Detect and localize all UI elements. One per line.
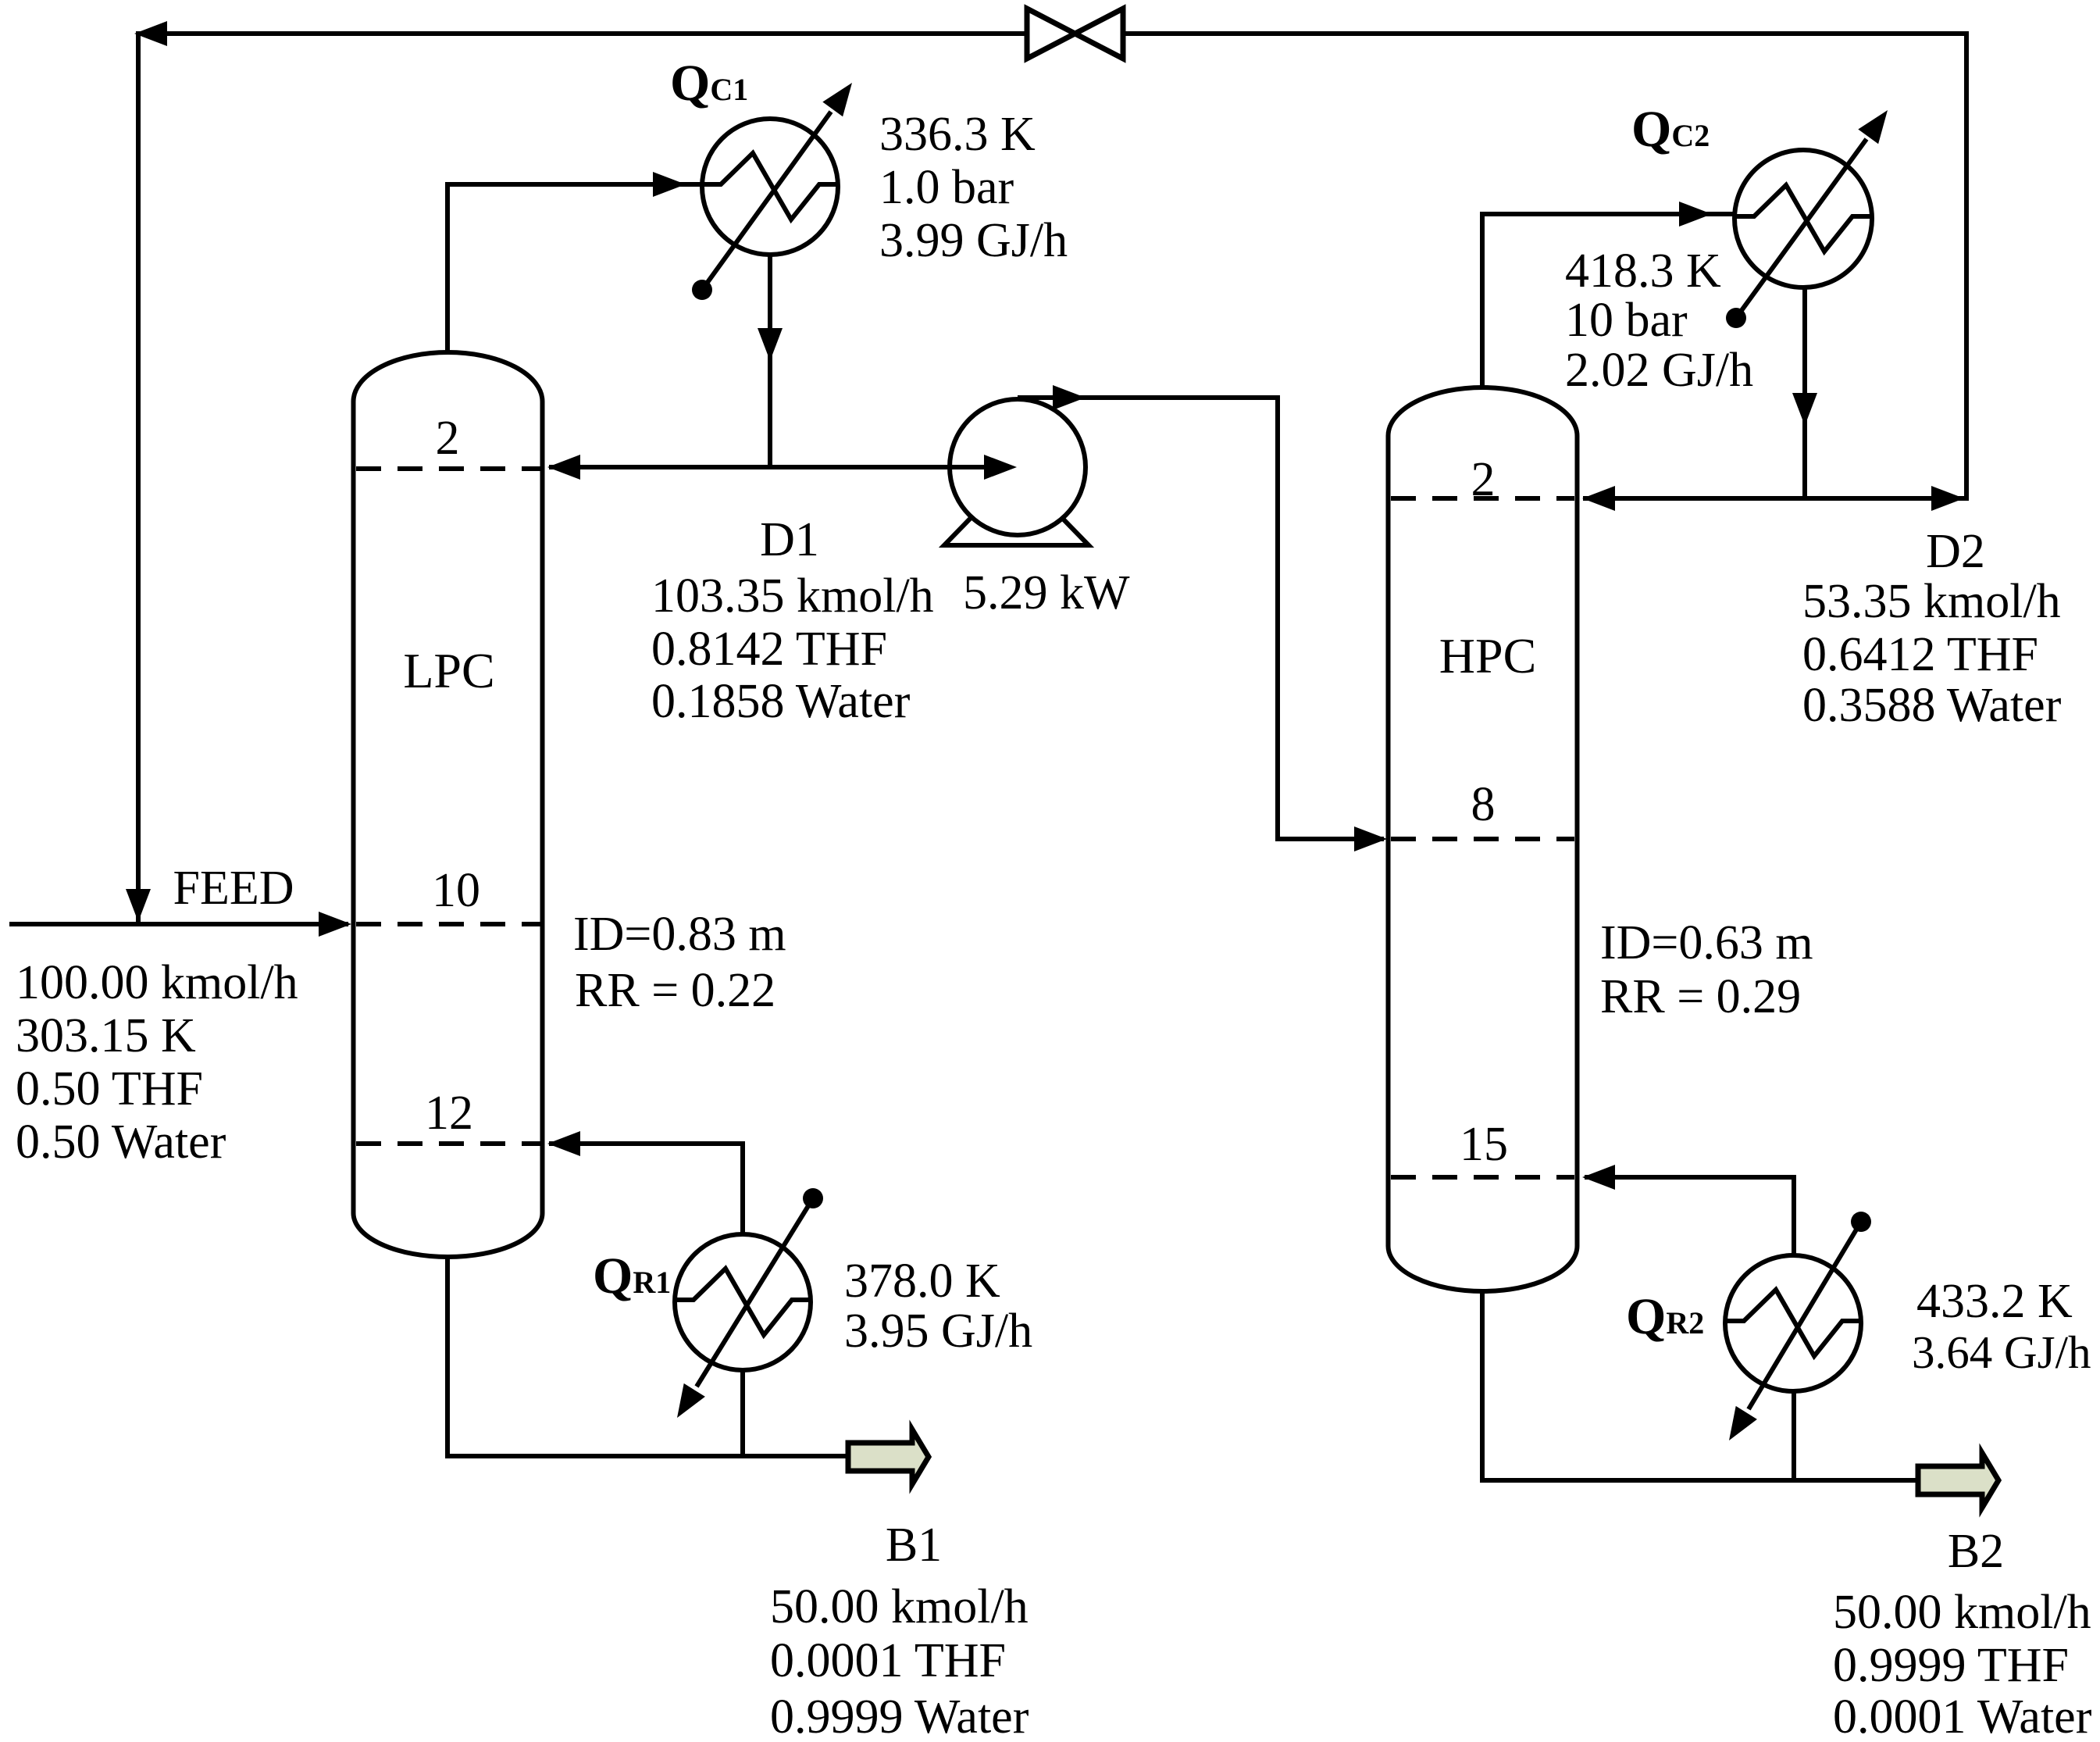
- arrowhead reflux into LPC: [547, 455, 580, 480]
- wire QC1 outlet down: [768, 255, 772, 469]
- arrowhead recycle down into feed: [126, 889, 151, 922]
- svg-text:50.00 kmol/h: 50.00 kmol/h: [770, 1580, 1029, 1633]
- reboiler QR1: [675, 1188, 823, 1418]
- svg-text:RR = 0.22: RR = 0.22: [575, 964, 775, 1017]
- svg-text:3.95 GJ/h: 3.95 GJ/h: [844, 1305, 1032, 1358]
- node HPC stage 2 dashed line: [1391, 496, 1574, 501]
- svg-text:0.0001 THF: 0.0001 THF: [770, 1634, 1006, 1687]
- svg-text:HPC: HPC: [1439, 628, 1537, 684]
- svg-text:0.9999 Water: 0.9999 Water: [770, 1690, 1029, 1742]
- svg-text:ID=0.63 m: ID=0.63 m: [1600, 916, 1813, 969]
- node HPC stage 8 dashed line: [1391, 837, 1574, 841]
- node LPC stage 10 dashed line: [356, 922, 540, 926]
- pump P1 stand: [944, 516, 1089, 545]
- wire recycle riser right (D2 to top): [1964, 34, 1969, 501]
- svg-text:0.0001 Water: 0.0001 Water: [1833, 1690, 2092, 1742]
- svg-text:0.3588 Water: 0.3588 Water: [1802, 679, 2062, 732]
- wire QR1 bottom connection: [740, 1367, 745, 1456]
- arrowhead D2 to recycle riser: [1931, 486, 1964, 511]
- arrowhead QC1 outlet down: [758, 328, 783, 361]
- svg-text:378.0 K: 378.0 K: [844, 1255, 1000, 1308]
- column LPC: [354, 352, 543, 1257]
- wire reflux/distillate line to pump: [549, 465, 1018, 469]
- svg-text:LPC: LPC: [403, 643, 494, 698]
- wire QR2 bottom connection: [1792, 1388, 1796, 1480]
- wire HPC overhead to QC2: [1480, 212, 1735, 216]
- arrowhead reboiler return into HPC: [1582, 1165, 1615, 1190]
- wire FEED line: [9, 922, 348, 926]
- arrowhead pump inlet: [984, 455, 1017, 480]
- wire recycle riser left (down to feed): [136, 31, 141, 924]
- condenser QC1: [692, 83, 852, 300]
- wire HPC reflux / D2 line: [1583, 496, 1966, 501]
- svg-text:FEED: FEED: [173, 862, 294, 915]
- svg-text:0.50 THF: 0.50 THF: [16, 1062, 203, 1116]
- svg-text:3.99 GJ/h: 3.99 GJ/h: [879, 214, 1068, 267]
- svg-text:ID=0.83 m: ID=0.83 m: [573, 908, 786, 961]
- svg-text:10: 10: [432, 864, 480, 917]
- svg-text:2: 2: [1471, 453, 1496, 506]
- svg-text:0.50 Water: 0.50 Water: [16, 1116, 226, 1169]
- arrowhead pump outlet right: [1053, 385, 1086, 410]
- svg-text:103.35 kmol/h: 103.35 kmol/h: [651, 569, 934, 623]
- arrowhead recycle left: [134, 21, 167, 46]
- svg-text:RR = 0.29: RR = 0.29: [1600, 970, 1801, 1023]
- svg-text:B1: B1: [886, 1519, 942, 1572]
- svg-text:336.3 K: 336.3 K: [879, 108, 1036, 161]
- svg-text:5.29 kW: 5.29 kW: [963, 566, 1130, 619]
- svg-text:418.3 K: 418.3 K: [1565, 245, 1721, 298]
- svg-text:303.15 K: 303.15 K: [16, 1009, 196, 1062]
- svg-text:12: 12: [425, 1087, 473, 1140]
- node B1 product arrow: [848, 1430, 929, 1484]
- wire pump inlet stub: [950, 465, 986, 469]
- svg-text:0.8142 THF: 0.8142 THF: [651, 623, 887, 676]
- condenser QC2: [1726, 110, 1888, 328]
- valve V1: [1027, 9, 1123, 59]
- svg-text:0.6412 THF: 0.6412 THF: [1802, 628, 2038, 681]
- arrowhead feed into LPC: [319, 912, 351, 937]
- svg-text:3.64 GJ/h: 3.64 GJ/h: [1912, 1326, 2091, 1378]
- wire LPC bottoms line: [447, 1257, 847, 1456]
- wire HPC bottoms line: [1482, 1291, 1917, 1480]
- svg-text:0.9999 THF: 0.9999 THF: [1833, 1639, 2069, 1692]
- arrowhead reboiler return into LPC: [547, 1131, 580, 1156]
- svg-text:B2: B2: [1948, 1525, 2004, 1578]
- wire LPC overhead riser: [445, 184, 450, 352]
- wire LPC overhead to QC1: [445, 182, 702, 187]
- arrowhead into QC2: [1679, 202, 1712, 227]
- svg-text:53.35 kmol/h: 53.35 kmol/h: [1802, 575, 2061, 628]
- node HPC stage 15 dashed line: [1391, 1175, 1574, 1180]
- svg-text:0.1858 Water: 0.1858 Water: [651, 675, 911, 728]
- svg-text:1.0 bar: 1.0 bar: [879, 161, 1014, 214]
- svg-text:433.2 K: 433.2 K: [1916, 1275, 2073, 1328]
- svg-text:50.00 kmol/h: 50.00 kmol/h: [1833, 1586, 2091, 1639]
- arrowhead feed into HPC: [1354, 826, 1387, 851]
- node LPC stage 2 dashed line: [356, 466, 540, 471]
- wire pump outlet: [1018, 398, 1384, 839]
- svg-text:10 bar: 10 bar: [1565, 294, 1688, 347]
- svg-text:8: 8: [1471, 778, 1496, 831]
- svg-text:D2: D2: [1926, 525, 1985, 578]
- svg-text:100.00 kmol/h: 100.00 kmol/h: [16, 956, 298, 1009]
- arrowhead into QC1: [653, 172, 686, 197]
- wire HPC stage15 reboiler return: [1585, 1177, 1794, 1255]
- column HPC: [1389, 387, 1578, 1291]
- wire QC2 outlet down: [1802, 287, 1807, 501]
- node B2 product arrow: [1918, 1453, 1998, 1508]
- arrowhead reflux into HPC: [1582, 486, 1615, 511]
- svg-text:2.02 GJ/h: 2.02 GJ/h: [1565, 344, 1753, 397]
- reboiler QR2: [1725, 1212, 1871, 1440]
- node LPC stage 12 dashed line: [356, 1141, 540, 1146]
- pump P1 body: [950, 399, 1086, 535]
- svg-text:15: 15: [1460, 1118, 1508, 1171]
- wire recycle top line: [136, 31, 1969, 36]
- wire HPC overhead riser: [1480, 214, 1485, 387]
- svg-text:2: 2: [436, 412, 460, 465]
- wire LPC stage12 reboiler return: [549, 1144, 743, 1234]
- arrowhead QC2 outlet down: [1792, 393, 1817, 426]
- svg-text:D1: D1: [760, 513, 819, 566]
